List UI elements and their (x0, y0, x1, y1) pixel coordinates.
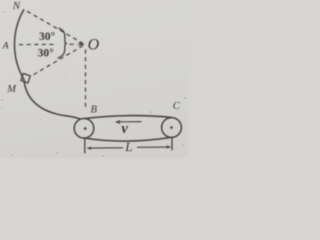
svg-text:v: v (121, 121, 128, 137)
svg-text:30°: 30° (39, 31, 56, 43)
svg-text:N: N (12, 0, 21, 12)
svg-text:A: A (2, 40, 10, 51)
svg-text:B: B (91, 104, 98, 115)
svg-text:O: O (88, 37, 100, 54)
svg-text:C: C (173, 101, 181, 112)
svg-text:L: L (124, 139, 132, 154)
svg-text:M: M (6, 84, 17, 95)
svg-text:30°: 30° (38, 47, 55, 59)
